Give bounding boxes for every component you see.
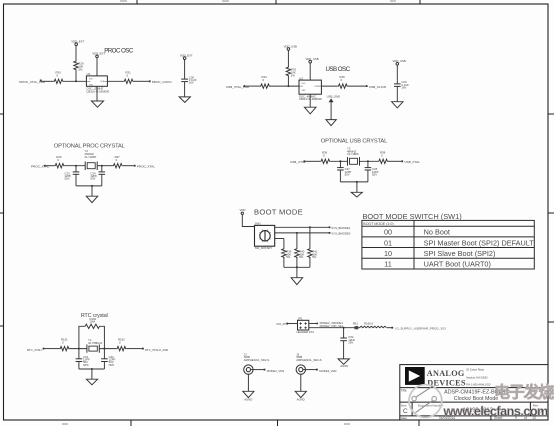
svg-text:MODE2_V3D_SEL: MODE2_V3D_SEL	[320, 324, 344, 328]
wire	[41, 80, 54, 82]
power arrow USB_GND	[327, 94, 341, 102]
node junction	[75, 165, 77, 167]
wire	[309, 323, 317, 325]
net flag USB_XTAL	[290, 160, 306, 164]
capacitor C52	[340, 328, 355, 359]
svg-text:VDD_USB: VDD_USB	[284, 44, 297, 48]
zone tick right 1	[548, 113, 554, 115]
svg-text:VDD: VDD	[240, 208, 246, 212]
node junction	[343, 327, 345, 329]
node junction	[75, 80, 77, 82]
svg-text:U3: U3	[299, 76, 303, 80]
svg-text:FB1: FB1	[353, 322, 359, 326]
resistor R34	[260, 75, 270, 88]
svg-text:NP0: NP0	[83, 363, 89, 367]
svg-text:Date: Date	[401, 416, 408, 420]
wire	[242, 215, 254, 227]
net flag PROC_XTAL left	[19, 80, 46, 85]
svg-text:AMPHENOL_SD2-S: AMPHENOL_SD2-S	[296, 358, 322, 362]
title block frame	[400, 365, 548, 420]
svg-text:USB OSC: USB OSC	[326, 66, 351, 73]
crystal Y3	[347, 147, 360, 166]
wire	[287, 50, 289, 66]
svg-text:50V: 50V	[345, 172, 350, 176]
wire	[283, 257, 285, 267]
svg-text:OPTIONAL PROC CRYSTAL: OPTIONAL PROC CRYSTAL	[54, 144, 125, 150]
svg-text:电子发烧友: 电子发烧友	[494, 383, 554, 402]
wire	[396, 86, 398, 101]
svg-text:RTC_XTALO_PAD: RTC_XTALO_PAD	[145, 348, 168, 352]
net flag RTC_XTALI	[27, 348, 44, 352]
svg-text:USB_GND: USB_GND	[327, 94, 341, 98]
svg-text:VDD_EXT: VDD_EXT	[92, 52, 105, 56]
svg-text:No Boot: No Boot	[424, 228, 450, 237]
node junction	[309, 226, 311, 228]
resistor R33 pull-up	[286, 67, 296, 78]
wire feedback left	[79, 326, 84, 348]
capacitor C27	[337, 161, 351, 182]
node junction	[287, 85, 289, 87]
zone tick bottom 2	[277, 420, 279, 426]
svg-text:VDD_EXT: VDD_EXT	[180, 54, 193, 58]
wire	[75, 46, 77, 61]
watermark stamp ellipse	[409, 385, 442, 418]
node junction	[78, 348, 80, 350]
wire	[184, 60, 186, 80]
svg-text:VDD_USB: VDD_USB	[305, 57, 318, 61]
ADI logo	[405, 367, 425, 385]
svg-text:00: 00	[384, 228, 392, 237]
wire BMODE1	[275, 226, 329, 228]
svg-text:USB_XTAL: USB_XTAL	[290, 160, 306, 164]
svg-text:SYS_BMODE1: SYS_BMODE1	[331, 226, 350, 230]
zone tick right 3	[548, 321, 554, 323]
power VDD_EXT	[71, 39, 84, 45]
resistor R27	[113, 155, 123, 168]
svg-text:50V: 50V	[372, 172, 377, 176]
oscillator U2	[86, 72, 109, 93]
svg-text:MODE2_VM1: MODE2_VM1	[267, 369, 285, 373]
svg-text:IO_SUPPLY_USERVAR_PROG_3V3: IO_SUPPLY_USERVAR_PROG_3V3	[396, 327, 447, 331]
wire	[79, 368, 105, 370]
wire	[303, 369, 316, 371]
wire	[76, 185, 102, 187]
wire	[134, 80, 149, 82]
svg-text:BOOT MODE (1:0): BOOT MODE (1:0)	[363, 222, 393, 226]
resistor R41	[308, 248, 318, 259]
svg-text:PROC_XTAL_PAD: PROC_XTAL_PAD	[19, 80, 46, 84]
svg-text:32.768KHZ: 32.768KHZ	[88, 341, 102, 345]
svg-text:BOOT MODE: BOOT MODE	[254, 207, 303, 216]
zone tick left 3	[0, 325, 4, 327]
oscillator U3	[299, 76, 322, 101]
svg-text:5%: 5%	[291, 74, 296, 78]
svg-text:UART Boot (UART0): UART Boot (UART0)	[424, 260, 491, 269]
header JP1	[297, 316, 315, 334]
svg-text:16V: 16V	[189, 81, 194, 85]
svg-text:CL=18PF: CL=18PF	[347, 152, 359, 156]
resistor R29 pull-up	[74, 61, 84, 72]
svg-text:Size: Size	[401, 403, 407, 407]
svg-text:PROC_XTAL: PROC_XTAL	[137, 165, 155, 169]
table row 01 SPI Master	[384, 238, 534, 247]
wire	[396, 65, 398, 84]
svg-text:RTC_XTALI: RTC_XTALI	[27, 348, 42, 352]
svg-text:PROC_XTAL: PROC_XTAL	[31, 165, 49, 169]
ground	[392, 102, 403, 108]
svg-text:HEADER 2X2: HEADER 2X2	[297, 330, 315, 334]
table row 11 UART Boot	[384, 260, 491, 269]
node junction	[339, 160, 341, 162]
svg-text:SW1: SW1	[255, 222, 262, 226]
capacitor C31	[76, 349, 90, 369]
wire	[348, 85, 366, 87]
boot mode table	[362, 220, 534, 269]
svg-text:25V: 25V	[348, 340, 353, 344]
ground AGND	[338, 359, 349, 368]
svg-text:PH: 1-800-ANALOGD: PH: 1-800-ANALOGD	[466, 384, 491, 387]
svg-text:PROC OSC: PROC OSC	[104, 48, 134, 55]
zone label remnants bottom edge	[62, 423, 350, 425]
svg-text:Nashua, NH 03063: Nashua, NH 03063	[466, 376, 488, 379]
net flag PROC_EXTAL	[134, 165, 155, 169]
resistor R36	[320, 150, 330, 163]
svg-text:C: C	[403, 408, 408, 415]
ground	[86, 369, 97, 385]
net flag MODE2_VM2	[316, 369, 337, 373]
wire	[96, 58, 98, 76]
svg-text:01: 01	[384, 238, 392, 247]
ground	[326, 120, 336, 126]
capacitor C29	[394, 80, 409, 89]
capacitor C28	[365, 161, 379, 182]
wire	[296, 257, 298, 267]
svg-text:5%: 5%	[286, 255, 291, 259]
svg-text:5%: 5%	[312, 255, 317, 259]
ferrite bead FB1	[353, 322, 359, 330]
resistor R40	[295, 248, 305, 259]
svg-text:5%: 5%	[78, 68, 83, 72]
wire	[270, 85, 299, 87]
wire	[321, 85, 337, 87]
wire	[288, 323, 297, 325]
svg-text:SPI Master Boot (SPI2) DEFAULT: SPI Master Boot (SPI2) DEFAULT	[424, 238, 535, 247]
svg-text:AGND: AGND	[244, 398, 252, 402]
wire	[287, 77, 289, 87]
svg-text:CB3LV-3I-25M000: CB3LV-3I-25M000	[86, 89, 109, 93]
zone label remnants top edge	[120, 0, 396, 2]
svg-text:USB_XTAL: USB_XTAL	[404, 160, 420, 164]
net flag PROC_CLKIN	[149, 80, 172, 84]
svg-text:JP1: JP1	[298, 316, 303, 320]
net flag MODE2_VM1	[264, 369, 285, 373]
wire	[126, 348, 142, 350]
wire long supply net	[309, 327, 355, 329]
ground	[179, 97, 190, 103]
node junction	[356, 181, 358, 183]
zone tick left 2	[0, 212, 4, 214]
wire	[296, 233, 298, 248]
svg-text:Title: Title	[401, 388, 407, 392]
wire	[330, 102, 332, 119]
svg-text:16V: 16V	[401, 85, 406, 89]
svg-text:5%: 5%	[299, 255, 304, 259]
svg-text:SPI Slave Boot (SPI2): SPI Slave Boot (SPI2)	[424, 249, 496, 258]
net flag USB_XTAL left	[226, 85, 250, 89]
node junction	[91, 368, 93, 370]
resistor R160 feedback	[84, 317, 101, 329]
capacitor C24	[90, 166, 105, 186]
capacitor C26	[181, 75, 197, 84]
svg-text:Document Number: Document Number	[418, 403, 443, 407]
svg-text:U2: U2	[87, 72, 91, 76]
capacitor C23	[65, 166, 80, 186]
connector J2 SMB	[244, 352, 270, 374]
svg-text:SW_ROTARY: SW_ROTARY	[255, 246, 273, 250]
ground AGND J3	[295, 374, 306, 401]
svg-text:ANALOG: ANALOG	[427, 369, 465, 378]
wire	[305, 160, 320, 162]
power VDD_USB osc	[305, 57, 318, 63]
wire	[358, 327, 359, 329]
node junction	[101, 165, 103, 167]
wire pin3	[275, 238, 284, 240]
zone tick top 1	[136, 0, 138, 4]
wire	[387, 327, 392, 329]
resistor R31	[124, 70, 134, 83]
svg-text:AMPHENOL_SD2-S: AMPHENOL_SD2-S	[244, 358, 270, 362]
resistor R161	[59, 338, 69, 351]
wire	[99, 348, 116, 350]
net flag PROC_XTAL	[31, 165, 49, 169]
svg-text:VDD_EXT: VDD_EXT	[71, 39, 84, 43]
power VDD_USB cap C29	[393, 59, 406, 65]
node junction	[103, 348, 105, 350]
resistor R162	[116, 338, 126, 351]
node junction	[296, 232, 298, 234]
svg-text:SYS_BMODE0: SYS_BMODE0	[331, 232, 350, 236]
power VDD_EXT cap C26	[180, 54, 193, 60]
node junction	[367, 160, 369, 162]
wire	[75, 71, 77, 82]
svg-text:50V: 50V	[65, 177, 70, 181]
wire	[340, 181, 368, 183]
power VDD_USB	[284, 44, 297, 50]
svg-text:www.elecfans.com: www.elecfans.com	[443, 405, 549, 419]
svg-text:GND: GND	[302, 90, 307, 92]
zone tick top 3	[419, 0, 421, 4]
net flag IO supply	[391, 327, 446, 331]
wire	[251, 369, 264, 371]
connector J3 SMB	[296, 352, 322, 374]
net flag RTC_XTALO	[142, 348, 168, 352]
svg-text:AGND: AGND	[340, 364, 348, 368]
zone tick bottom 1	[130, 420, 132, 426]
wire	[283, 239, 285, 249]
wire	[284, 266, 310, 268]
table row 10 SPI Slave	[384, 249, 495, 258]
ground	[91, 86, 103, 107]
svg-text:VDD_USB: VDD_USB	[393, 59, 406, 63]
net flag SYS_BMODE0	[329, 232, 351, 236]
ground AGND J2	[243, 374, 254, 401]
table row 00 No Boot	[384, 228, 450, 237]
wire	[64, 165, 85, 167]
zone tick top 2	[275, 0, 277, 4]
net flag USB_XTAL right	[401, 160, 420, 164]
rotary switch SW1	[255, 222, 275, 250]
wire	[107, 80, 123, 82]
resistor R38	[378, 150, 388, 163]
wire feedback right	[101, 326, 104, 348]
svg-text:10M: 10M	[90, 320, 96, 324]
svg-text:11: 11	[384, 260, 392, 269]
ground	[351, 182, 362, 197]
wire	[123, 165, 134, 167]
zone tick left 1	[0, 113, 4, 115]
resistor R30	[54, 70, 64, 83]
power VDD boot	[240, 208, 246, 214]
resistor R35	[338, 75, 348, 88]
wire	[360, 160, 379, 162]
svg-text:20 Cotton Road: 20 Cotton Road	[466, 368, 484, 371]
resistor R26	[54, 155, 64, 168]
svg-text:BOOT MODE SWITCH (SW1): BOOT MODE SWITCH (SW1)	[363, 212, 462, 221]
ground	[291, 267, 303, 284]
wire	[330, 160, 347, 162]
resistor R166 long	[360, 322, 387, 328]
wire	[309, 63, 311, 80]
zone tick bottom 3	[418, 420, 420, 426]
node junction	[91, 185, 93, 187]
wire	[64, 80, 87, 82]
svg-text:50V: 50V	[90, 177, 95, 181]
wire BMODE0	[275, 232, 329, 234]
net flag USB_CLKIN	[366, 85, 386, 89]
net label VIO_RTC	[276, 322, 288, 326]
svg-text:R166 0: R166 0	[364, 322, 373, 326]
svg-text:Clocks/ Boot Mode: Clocks/ Boot Mode	[454, 396, 499, 402]
resistor R39	[282, 248, 292, 259]
crystal Y2	[85, 149, 98, 170]
wire	[45, 348, 60, 350]
net flag MODE2_VM	[316, 321, 343, 325]
zone tick right 2	[548, 212, 554, 214]
svg-text:USB_CLKIN: USB_CLKIN	[369, 85, 386, 89]
wire	[245, 85, 260, 87]
wire	[309, 257, 311, 267]
wire	[309, 227, 311, 248]
wire	[388, 160, 401, 162]
capacitor C32	[101, 349, 115, 369]
svg-text:PROC_CLKIN: PROC_CLKIN	[152, 80, 172, 84]
wire	[69, 348, 87, 350]
svg-text:OPTIONAL USB CRYSTAL: OPTIONAL USB CRYSTAL	[321, 139, 387, 145]
wire	[46, 165, 55, 167]
power VDD_EXT osc	[92, 52, 105, 58]
svg-text:CL=18PF: CL=18PF	[85, 155, 97, 159]
crystal Y1	[87, 338, 103, 353]
svg-text:NP0: NP0	[109, 363, 115, 367]
wire	[184, 82, 186, 97]
svg-text:AGND: AGND	[297, 398, 305, 402]
node junction	[296, 266, 298, 268]
svg-text:MODE2_VM2: MODE2_VM2	[319, 369, 337, 373]
wire	[97, 165, 112, 167]
svg-text:USB_XTAL_PAD: USB_XTAL_PAD	[226, 85, 250, 89]
net flag SYS_BMODE1	[329, 226, 351, 230]
svg-text:10: 10	[384, 249, 392, 258]
ground	[304, 94, 316, 114]
ground	[86, 186, 97, 203]
